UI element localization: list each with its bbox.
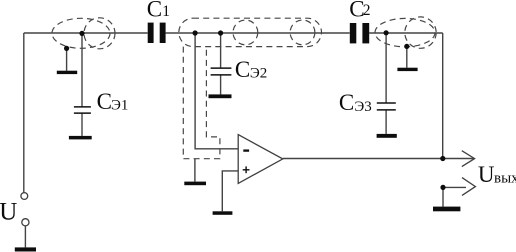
wire top bus left segment <box>24 32 148 34</box>
arrow output bottom <box>462 178 475 196</box>
svg-text:C: C <box>147 0 162 22</box>
node output junction <box>440 156 445 161</box>
terminal circle input bottom <box>22 219 29 226</box>
node right <box>384 30 389 35</box>
node shield-left tap <box>64 46 69 51</box>
capacitor C2 <box>350 23 369 43</box>
wire op-amp output to arrow <box>283 158 473 160</box>
wire input terminal to ground <box>24 226 26 248</box>
shield screen middle circle 1 <box>233 20 258 45</box>
wire lower terminal to ground <box>442 187 444 206</box>
ground input terminal <box>15 247 36 251</box>
capacitor CЭ1 <box>74 107 91 113</box>
ground output terminal <box>433 207 460 212</box>
svg-text:C: C <box>97 89 112 114</box>
wire node to inverting input <box>195 33 238 149</box>
ground non-inverting input <box>213 211 233 215</box>
shield screen right ellipse <box>375 18 435 46</box>
svg-text:Э2: Э2 <box>250 65 267 81</box>
wire CЭ2 to ground <box>220 75 222 94</box>
ground CЭ3 <box>377 134 397 138</box>
wire node to CЭ3 <box>385 33 387 103</box>
shield screen middle circle 2 <box>290 20 315 45</box>
svg-text:U: U <box>478 162 495 187</box>
ground shield-left <box>57 71 77 74</box>
svg-text:1: 1 <box>162 3 170 20</box>
ground CЭ1 <box>69 136 92 140</box>
wire left input drop <box>23 33 25 192</box>
node middle 2 <box>218 30 223 35</box>
shield screen right circle <box>405 17 436 48</box>
wire right vertical to output node <box>442 33 444 159</box>
node top-left <box>79 31 84 36</box>
terminal circle input top <box>21 193 28 200</box>
wire non-inverting input to ground <box>222 171 238 211</box>
ground guard shield <box>184 182 206 186</box>
wire C1 to C2 bus <box>166 32 350 34</box>
wire C2 to right corner <box>369 32 443 34</box>
wire lower output terminal <box>443 186 466 188</box>
wire node to CЭ2 <box>220 33 222 68</box>
shield screen left ellipse <box>52 18 110 48</box>
capacitor C1 <box>148 23 166 43</box>
node shield-right tap <box>404 44 409 49</box>
wire shield-right ground lead <box>406 46 408 67</box>
ground CЭ2 <box>209 94 232 98</box>
shield screen left circle <box>84 18 115 49</box>
wire shield-left ground lead <box>66 48 68 70</box>
svg-text:Э1: Э1 <box>111 98 128 114</box>
wire guard shield ground stub <box>194 159 196 182</box>
ground shield-right <box>397 68 417 71</box>
wire node to CЭ1 <box>81 33 83 106</box>
svg-text:Э3: Э3 <box>354 99 371 115</box>
svg-text:2: 2 <box>363 2 371 19</box>
node lower output terminal <box>440 185 445 190</box>
node middle 1 <box>193 30 198 35</box>
wire CЭ3 to ground <box>385 110 387 134</box>
guard shield around inverting input <box>183 47 220 159</box>
op-amp U1 <box>238 135 283 184</box>
capacitor CЭ3 <box>377 103 396 110</box>
svg-text:C: C <box>235 57 250 82</box>
capacitor CЭ2 <box>211 68 232 75</box>
svg-text:C: C <box>339 90 354 115</box>
shield screen middle stadium <box>179 18 322 46</box>
svg-text:U: U <box>0 199 17 226</box>
svg-text:вых: вых <box>494 170 516 186</box>
arrow output top <box>462 151 475 167</box>
wire CЭ1 to ground <box>81 113 83 135</box>
